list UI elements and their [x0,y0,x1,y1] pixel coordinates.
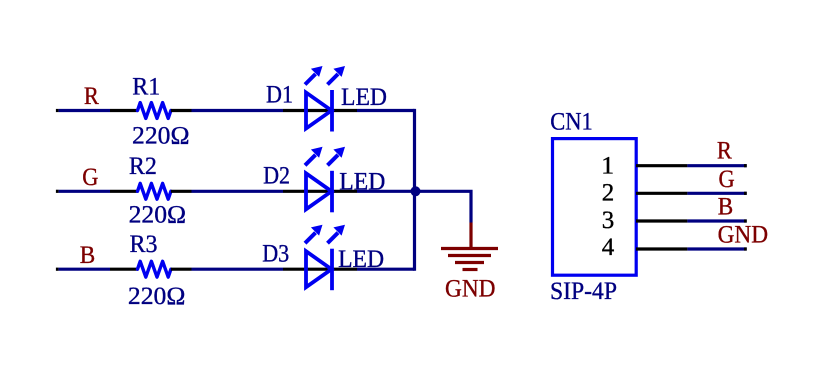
svg-text:CN1: CN1 [550,108,593,135]
svg-text:2: 2 [602,180,615,207]
svg-text:G: G [719,166,735,193]
svg-text:LED: LED [341,84,387,111]
svg-text:LED: LED [339,169,385,196]
svg-text:B: B [80,242,96,269]
svg-text:B: B [718,193,734,220]
svg-text:GND: GND [718,222,769,249]
svg-text:GND: GND [445,275,496,302]
svg-text:R: R [84,83,99,110]
svg-text:3: 3 [602,207,615,234]
svg-text:R1: R1 [132,74,160,101]
svg-text:220Ω: 220Ω [132,122,190,149]
svg-text:LED: LED [338,246,384,273]
svg-text:220Ω: 220Ω [129,202,187,229]
svg-text:1: 1 [601,153,614,180]
svg-text:R2: R2 [129,153,157,180]
svg-text:R3: R3 [130,231,158,258]
svg-text:G: G [82,164,98,191]
svg-text:D3: D3 [262,241,289,268]
svg-text:D2: D2 [263,162,290,189]
svg-text:R: R [717,137,732,164]
svg-text:SIP-4P: SIP-4P [550,278,617,305]
svg-text:220Ω: 220Ω [128,283,185,310]
svg-text:4: 4 [602,234,615,261]
svg-text:D1: D1 [266,82,293,109]
